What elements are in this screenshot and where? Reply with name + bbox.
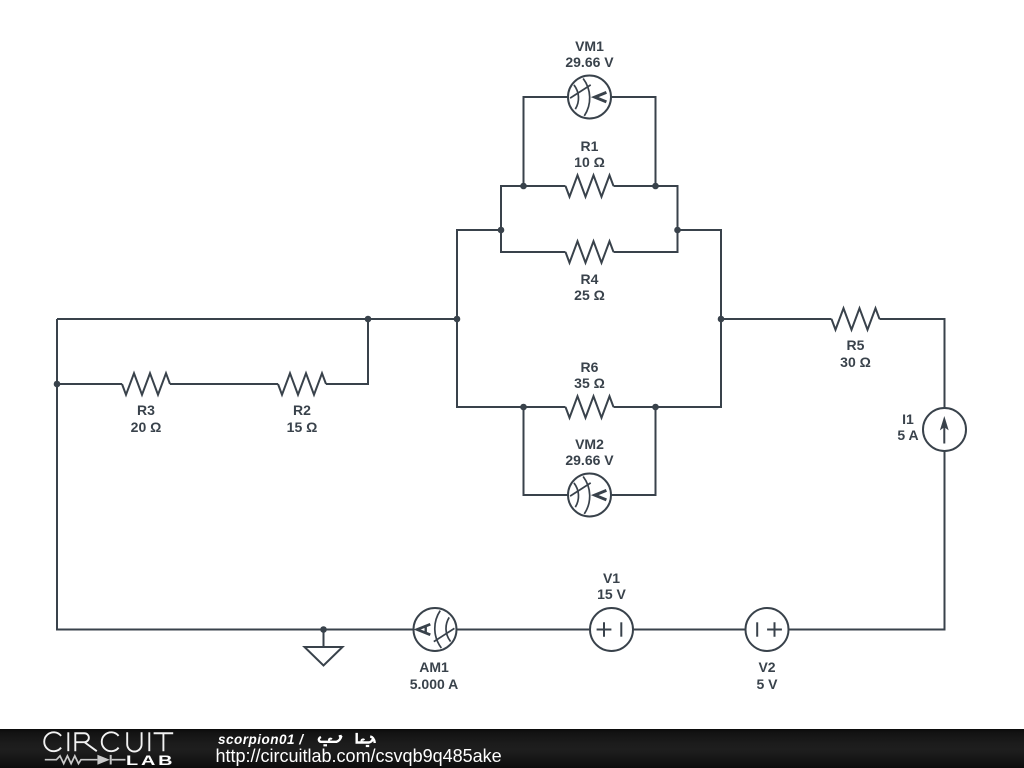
junction [454,316,461,323]
resistor R5 [832,308,880,330]
wire [326,319,368,384]
junction [54,381,61,388]
ground [305,630,343,666]
label R5 value [786,355,926,369]
label VM2 name [520,437,660,451]
wire [677,186,679,252]
label AM1 value [364,677,504,691]
wire [611,97,656,186]
label R4 name [520,272,660,286]
resistor R3 [122,373,170,395]
voltage source V1 [590,608,633,651]
junction [520,183,527,190]
wire [611,407,656,495]
wire [170,383,278,385]
wire [524,97,569,186]
voltmeter VM2 [568,474,611,517]
current source I1 [923,408,966,451]
resistor R4 [566,241,614,263]
logo squiggle resistor and diode [45,755,126,765]
voltage source V2 [746,608,789,651]
junction [652,404,659,411]
wire [524,407,569,495]
logo wordmark CIRCUIT [44,732,173,751]
wire [880,319,945,408]
label VM1 name [520,39,660,53]
voltmeter VM1 [568,76,611,119]
label I1 value [838,428,978,442]
label R3 name [76,403,216,417]
junction [498,227,505,234]
junction [365,316,372,323]
ammeter AM1 [414,608,457,651]
label R5 name [786,338,926,352]
label V1 name [542,571,682,585]
label R1 value [520,155,660,169]
logo wordmark LAB [126,753,175,767]
wire [721,318,832,320]
wire [57,318,457,320]
label VM1 value [520,55,660,69]
wire [457,230,566,407]
wire [633,629,746,631]
wire [500,186,502,252]
label V1 value [542,587,682,601]
junction [652,183,659,190]
label R2 value [232,420,372,434]
wire [501,186,566,252]
label VM2 value [520,453,660,467]
label V2 value [697,677,837,691]
wire [57,319,414,630]
arabic author name (drawn strokes) [319,733,375,746]
label V2 name [697,660,837,674]
url line [216,747,502,765]
label R3 value [76,420,216,434]
resistor R6 [566,396,614,418]
wire [614,186,678,252]
junction [718,316,725,323]
junction [320,626,327,633]
wire [789,451,945,630]
label I1 name [838,412,978,426]
junction [520,404,527,411]
label AM1 name [364,660,504,674]
resistor R2 [278,373,326,395]
label R1 name [520,139,660,153]
wire [57,383,122,385]
label R6 value [520,376,660,390]
resistor R1 [566,175,614,197]
wire [457,629,591,631]
label R2 name [232,403,372,417]
junction [674,227,681,234]
label R4 value [520,288,660,302]
label R6 name [520,360,660,374]
author line [218,733,304,747]
wire [614,230,722,407]
